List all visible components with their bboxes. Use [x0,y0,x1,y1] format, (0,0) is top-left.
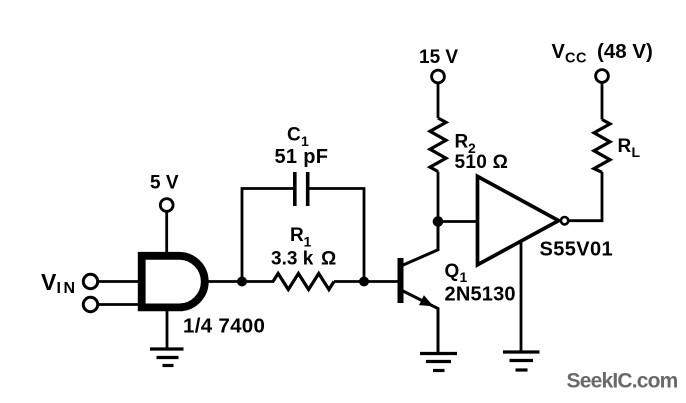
wire R1 to node B [334,280,364,283]
svg-text:R: R [455,132,469,153]
node C (collector node) [433,216,444,227]
svg-text:Q: Q [445,261,460,282]
resistor RL zigzag [594,120,610,173]
svg-text:5 V: 5 V [150,173,179,194]
node B (base node) [359,277,369,287]
label VCC (48 V) [552,40,653,66]
transistor Q1 emitter lead [402,291,438,356]
wire 5V to gate top [165,212,168,254]
wire gate bottom to ground [166,309,169,349]
gate U1 1/4 7400 [142,256,205,308]
svg-text:510 Ω: 510 Ω [455,152,509,173]
svg-text:1: 1 [304,234,312,250]
svg-text:CC: CC [565,51,587,67]
svg-text:S55V01: S55V01 [540,239,614,261]
label 3.3 kOhm [271,249,336,270]
svg-text:15 V: 15 V [419,47,458,68]
wire gate output to node A [204,280,244,283]
inverter output bubble [561,217,568,224]
capacitor C1 plates [295,172,308,206]
label R1 [290,225,312,250]
input terminal circle 2 [83,297,97,311]
wire inverter to ground [520,241,523,352]
resistor R1 zigzag [273,274,334,290]
svg-text:1/4 7400: 1/4 7400 [183,315,265,338]
wire 15V terminal to R2 [437,84,440,119]
svg-text:L: L [632,144,641,160]
label RL [618,136,641,160]
wire VCC terminal to RL [601,83,604,120]
inverter U2 triangle [478,176,559,264]
label VIN [41,269,78,297]
resistor R2 zigzag [430,118,446,172]
label C1 [287,125,309,150]
wire C1 bridge left [242,189,295,282]
wire C1 bridge right [308,189,364,282]
wire node C to inverter input [438,220,478,223]
svg-text:SeekIC.com: SeekIC.com [567,370,678,393]
VCC terminal circle [596,70,609,83]
wire node A to R1 [242,280,274,283]
wire input1 to gate [98,280,140,283]
svg-text:C: C [287,125,301,146]
svg-text:3.3 k: 3.3 k [271,249,314,270]
transistor Q1 collector lead [402,219,438,266]
svg-text:Ω: Ω [321,249,336,270]
svg-text:R: R [618,136,632,157]
wire bubble to RL [569,172,602,221]
svg-text:2N5130: 2N5130 [445,284,516,306]
transistor Q1 emitter arrow [419,295,434,306]
ground under emitter [420,354,457,371]
transistor Q1 base bar [398,258,404,303]
ground under inverter [503,352,540,370]
svg-text:V: V [41,269,57,295]
svg-text:IN: IN [57,280,78,297]
wire input2 to gate [98,303,140,306]
svg-text:R: R [290,225,304,246]
label R2 [455,132,477,157]
15V terminal circle [432,70,445,83]
wire node B to base [364,280,399,283]
node A (gate output) [237,277,247,287]
label Q1 [445,261,468,285]
5V terminal circle [160,199,173,212]
wire R2 bottom to node C [437,172,440,222]
svg-text:(48 V): (48 V) [597,40,653,63]
svg-text:V: V [552,41,566,63]
input terminal circle 1 [83,274,97,288]
ground under gate [150,349,184,366]
svg-text:51 pF: 51 pF [275,146,329,168]
